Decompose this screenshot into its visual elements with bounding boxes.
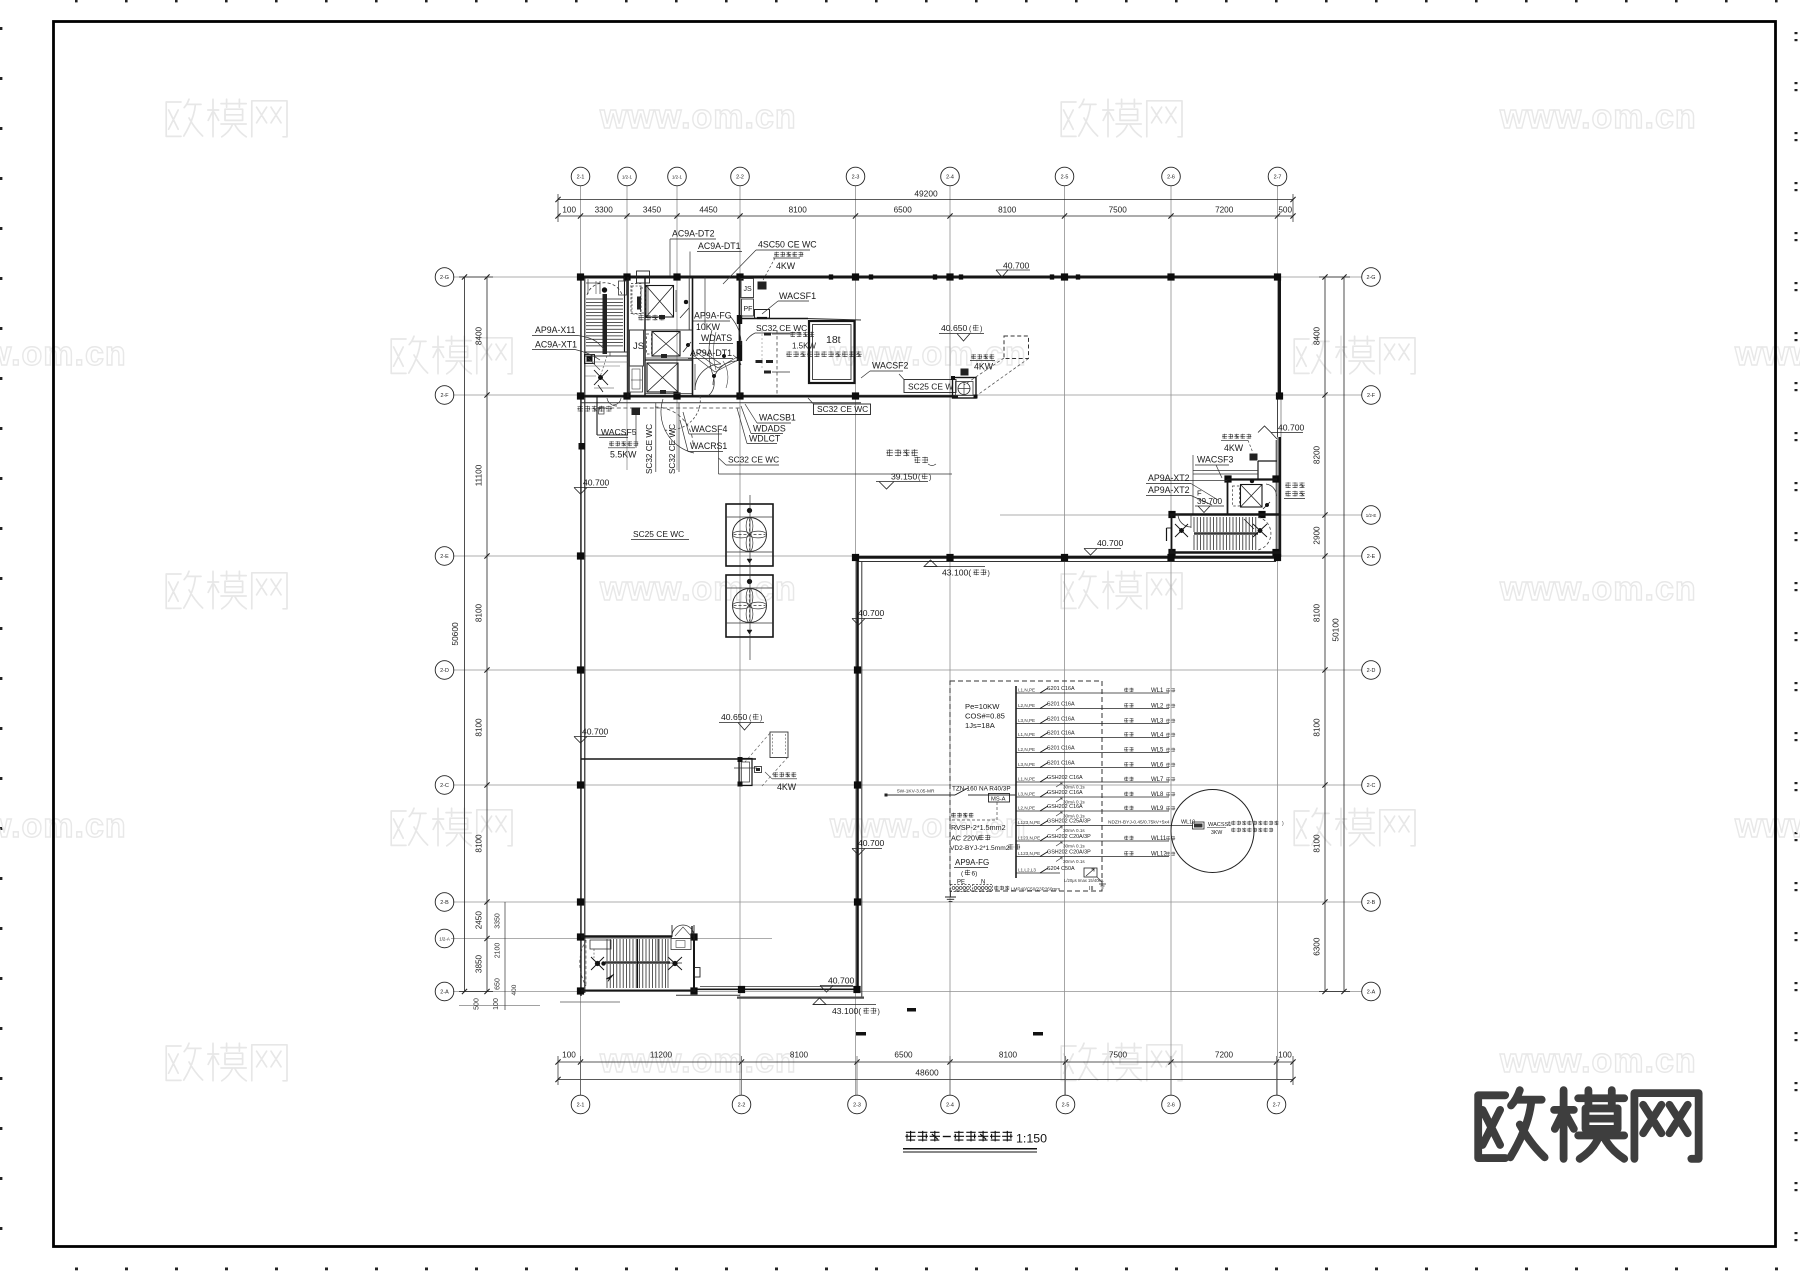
terminal note text <box>994 886 1060 892</box>
svg-text:2-4: 2-4 <box>946 174 954 180</box>
svg-text:2-A: 2-A <box>1367 989 1376 995</box>
west wall junction dot <box>579 443 586 450</box>
svg-text:1Js=18A: 1Js=18A <box>965 721 996 730</box>
SW stair entry door arc <box>580 940 586 986</box>
svg-text:WACRS1: WACRS1 <box>690 441 727 451</box>
svg-text:6): 6) <box>972 871 978 878</box>
svg-text:2-E: 2-E <box>440 554 449 560</box>
svg-text:4KW: 4KW <box>776 261 796 271</box>
svg-text:AC9A-XT1: AC9A-XT1 <box>535 340 577 350</box>
MS-A metering box <box>951 794 1010 821</box>
stair block extra detail lines <box>585 279 628 388</box>
horizontal grid lines <box>451 277 1362 992</box>
NE stair bottom wall <box>1170 551 1281 553</box>
elevator counterweight 1 <box>637 297 641 310</box>
elevation 40.650 wing <box>719 712 764 730</box>
SC25 CE WC label near fans <box>631 529 689 540</box>
west perimeter wall <box>581 276 585 996</box>
SW stair small box on east wall <box>695 968 701 978</box>
svg-text:SC32 CE WC: SC32 CE WC <box>668 424 677 474</box>
svg-text:11100: 11100 <box>475 464 484 486</box>
NE fixtures in machine room <box>1250 479 1270 509</box>
svg-text:www.om.cn: www.om.cn <box>1499 570 1697 608</box>
svg-text:WACSF4: WACSF4 <box>691 424 727 434</box>
svg-text:): ) <box>980 326 982 333</box>
smoke fan label <box>961 354 996 375</box>
watermark tiles <box>0 98 1800 1081</box>
svg-text:L123,N,PE: L123,N,PE <box>1018 836 1040 841</box>
elevation 40.700 wing west <box>574 727 609 744</box>
svg-text:4KW: 4KW <box>1224 443 1244 453</box>
label WACRS1 <box>680 420 727 452</box>
vertical grid lines <box>581 186 1278 1095</box>
fan duct axis line <box>749 495 751 660</box>
svg-text:3300: 3300 <box>595 206 614 215</box>
svg-text:3350: 3350 <box>495 913 502 929</box>
bottom dimension lines <box>555 1056 1295 1095</box>
svg-text:8100: 8100 <box>999 1051 1018 1060</box>
svg-text:7200: 7200 <box>1215 206 1234 215</box>
stairwell landing fixture box <box>585 355 595 364</box>
svg-text:LMP40/C50/23P?60mm: LMP40/C50/23P?60mm <box>1011 887 1060 892</box>
stairwell NW treads <box>586 299 623 346</box>
feeder circuit WL4 <box>1016 731 1175 739</box>
svg-text:TZN-160 NA R40/3P: TZN-160 NA R40/3P <box>952 786 1011 793</box>
svg-text:L/20μs Imax 15/40kA: L/20μs Imax 15/40kA <box>1064 878 1104 883</box>
feeder circuit WL3 <box>1016 717 1175 725</box>
svg-text:L1,N,PE: L1,N,PE <box>1018 777 1035 782</box>
svg-text:40.700: 40.700 <box>858 838 885 848</box>
east wall of west wing <box>858 557 862 997</box>
svg-text:L1,N,PE: L1,N,PE <box>1018 688 1035 693</box>
svg-text:SC32 CE WC: SC32 CE WC <box>645 424 654 474</box>
svg-text:500: 500 <box>474 998 481 1010</box>
WACSF1 device box <box>755 310 770 319</box>
svg-text:2-A: 2-A <box>440 989 449 995</box>
elevation 40.700 at east wall lower <box>852 838 885 855</box>
svg-text:SC32 CE WC: SC32 CE WC <box>728 455 779 465</box>
svg-text:L3,N,PE: L3,N,PE <box>1018 762 1035 767</box>
elevation 43.100 south structural <box>813 998 880 1016</box>
svg-text:WL8: WL8 <box>1151 792 1164 798</box>
right dimension lines <box>1319 274 1350 994</box>
svg-text:WL9: WL9 <box>1151 806 1164 812</box>
feeder circuit WL12 <box>1016 850 1175 865</box>
svg-text:49200: 49200 <box>914 189 938 199</box>
dashed pipe line in tank room <box>776 330 778 395</box>
om.cn site logo <box>1478 1090 1698 1159</box>
N terminal strip <box>973 885 993 892</box>
svg-text:AC 220V: AC 220V <box>951 834 980 843</box>
svg-text:www.om.cn: www.om.cn <box>1734 807 1800 845</box>
svg-text:S201 C16A: S201 C16A <box>1047 761 1075 767</box>
svg-text:): ) <box>929 475 931 482</box>
svg-text:GSH202 C20A/3P: GSH202 C20A/3P <box>1047 850 1091 856</box>
svg-text:2-7: 2-7 <box>1273 1102 1281 1108</box>
label SC32 CE WC under corridor <box>719 455 780 466</box>
svg-text:www.om.cn: www.om.cn <box>1499 1042 1697 1080</box>
south parapet line <box>560 995 864 1002</box>
elevation 40.700 south <box>820 976 855 993</box>
svg-text:2-6: 2-6 <box>1167 1102 1175 1108</box>
stray small marks southeast <box>856 1008 1043 1036</box>
svg-text:40.700: 40.700 <box>828 976 855 986</box>
label WDLCT <box>737 408 781 444</box>
vent leader dashed lines <box>745 733 788 786</box>
svg-text:40.700: 40.700 <box>1278 423 1305 433</box>
svg-text:): ) <box>878 1009 880 1016</box>
feeder circuit WL2 <box>1016 702 1175 710</box>
svg-text:2-G: 2-G <box>1367 275 1376 281</box>
elevation 40.700 above 2-E wall <box>1084 538 1124 555</box>
svg-text:100: 100 <box>1278 1051 1292 1060</box>
PE terminal strip <box>951 885 971 892</box>
svg-text:8400: 8400 <box>1313 326 1322 345</box>
svg-text:AP9A-DT1: AP9A-DT1 <box>690 348 732 358</box>
svg-text:2-C: 2-C <box>440 783 449 789</box>
leader from vent to fan <box>964 358 1029 396</box>
svg-text:RVSP-2*1.5mm2: RVSP-2*1.5mm2 <box>951 823 1006 832</box>
feeder circuit WL11 <box>1016 834 1175 849</box>
elevation 40.700 at east wall mid <box>852 608 885 625</box>
svg-text:2-6: 2-6 <box>1167 174 1175 180</box>
svg-text:1.5KW: 1.5KW <box>792 342 816 351</box>
incoming supply line <box>885 786 1017 797</box>
svg-text:40.700: 40.700 <box>1003 261 1030 271</box>
svg-text:): ) <box>760 715 762 722</box>
svg-text:8100: 8100 <box>475 834 484 853</box>
label WACSF4 <box>683 412 727 434</box>
svg-text:2-1: 2-1 <box>577 174 585 180</box>
svg-text:2100: 2100 <box>495 943 502 959</box>
svg-text:8400: 8400 <box>475 326 484 345</box>
feeder circuit WL13 spare <box>1016 866 1075 873</box>
svg-text:2-B: 2-B <box>440 900 449 906</box>
svg-text:50100: 50100 <box>1331 618 1341 642</box>
svg-text:AP9A-FG: AP9A-FG <box>955 858 989 867</box>
svg-text:WACSF5: WACSF5 <box>601 427 637 437</box>
svg-text:WL6: WL6 <box>1151 763 1164 769</box>
right dimension texts <box>1313 326 1341 955</box>
wall at 2-2 axis in block <box>737 277 742 397</box>
svg-text:WL10: WL10 <box>1181 820 1195 826</box>
SW stair block walls <box>581 926 696 992</box>
svg-text:WL2: WL2 <box>1151 704 1164 710</box>
stairwell NW door niche <box>619 281 627 295</box>
NE AP9A-XT2 labels <box>1146 473 1218 505</box>
svg-text:GSH202 C20A/3P: GSH202 C20A/3P <box>1047 834 1091 840</box>
feeder circuit WL7 <box>1016 775 1175 790</box>
machine room label <box>638 315 665 321</box>
svg-text:AC9A-DT1: AC9A-DT1 <box>698 241 741 251</box>
east parapet wall lower <box>1276 437 1280 557</box>
svg-text:NDZH-BYJ-0.45/0.75kV+5x4: NDZH-BYJ-0.45/0.75kV+5x4 <box>1108 820 1170 826</box>
label WDADS <box>741 406 786 434</box>
south wall of west wing <box>694 987 858 990</box>
svg-text:8100: 8100 <box>475 718 484 737</box>
svg-text:8100: 8100 <box>1313 718 1322 737</box>
svg-text:2-E: 2-E <box>1367 554 1376 560</box>
svg-text:30mA 0.1s: 30mA 0.1s <box>1063 785 1085 790</box>
title underline double <box>903 1149 1037 1152</box>
svg-text:www.om.cn: www.om.cn <box>1499 98 1697 136</box>
svg-text:2-5: 2-5 <box>1062 1102 1070 1108</box>
svg-text:GSH202 C25A/3P: GSH202 C25A/3P <box>1047 819 1091 825</box>
svg-text:S204 C50A: S204 C50A <box>1047 866 1075 872</box>
svg-text:WDLCT: WDLCT <box>749 434 781 444</box>
svg-text:3KW: 3KW <box>1211 830 1222 836</box>
svg-text:www.om.cn: www.om.cn <box>1734 335 1800 373</box>
svg-text:GSH202 C16A: GSH202 C16A <box>1047 790 1083 796</box>
svg-text:S201 C16A: S201 C16A <box>1047 731 1075 737</box>
top axis bubbles <box>571 167 1287 186</box>
stairwell NW arc <box>587 283 622 295</box>
label WACSB1 <box>745 404 796 423</box>
left dimension texts <box>450 326 518 1009</box>
svg-text:8200: 8200 <box>1313 445 1322 464</box>
elevation 40.650 on roof <box>939 323 984 341</box>
labels AP9A-X11 AC9A-XT1 <box>532 325 604 360</box>
svg-text:AC9A-DT2: AC9A-DT2 <box>672 229 715 239</box>
svg-text:S201 C16A: S201 C16A <box>1047 746 1075 752</box>
elevation 43.100 center structural <box>924 560 990 578</box>
NE elevation 40.700 top <box>1258 423 1305 440</box>
svg-text:www.om.cn: www.om.cn <box>599 1042 797 1080</box>
wing interior wall stub at 2-C <box>581 758 756 760</box>
svg-text:GSH202 C16A: GSH202 C16A <box>1047 804 1083 810</box>
svg-text:L123,N,PE: L123,N,PE <box>1018 851 1040 856</box>
svg-text:WACSF1: WACSF1 <box>779 291 816 301</box>
svg-text:2-D: 2-D <box>440 668 449 674</box>
feeder circuit WL5 <box>1016 746 1175 754</box>
svg-text:WDADS: WDADS <box>753 424 786 434</box>
svg-text:39.150: 39.150 <box>891 472 918 482</box>
NE stair treads <box>1194 517 1256 550</box>
svg-text:1/2-E: 1/2-E <box>1366 513 1377 518</box>
small box on north wall <box>637 271 650 283</box>
NE stair fixtures <box>1175 519 1267 537</box>
svg-text:4KW: 4KW <box>777 782 797 792</box>
svg-text:100: 100 <box>562 206 576 215</box>
svg-text:39.700: 39.700 <box>1197 497 1222 506</box>
svg-text:2-1: 2-1 <box>577 1102 585 1108</box>
label 4SC50 CE WC <box>723 240 817 285</box>
svg-text:18t: 18t <box>826 334 841 346</box>
motor feeder cable text <box>1108 820 1195 826</box>
svg-text:40.700: 40.700 <box>858 608 885 618</box>
svg-text:JS: JS <box>633 341 644 352</box>
panel name AP9A-FG <box>954 858 989 878</box>
svg-text:40.700: 40.700 <box>583 478 610 488</box>
svg-text:www.om.cn: www.om.cn <box>599 98 797 136</box>
stairwell NW stringer <box>603 294 608 354</box>
svg-text:10KW: 10KW <box>696 322 721 332</box>
svg-text:30mA 0.1s: 30mA 0.1s <box>1063 828 1085 833</box>
svg-text:WACSB1: WACSB1 <box>759 413 796 423</box>
svg-text:2-B: 2-B <box>1367 900 1376 906</box>
fire water tank 18t <box>809 321 855 383</box>
svg-text:2-4: 2-4 <box>946 1102 954 1108</box>
SW stair top-left niche <box>590 940 611 958</box>
svg-text:2-2: 2-2 <box>738 1102 746 1108</box>
SC32 CE WC boxed label right <box>808 398 871 415</box>
svg-text:8100: 8100 <box>1313 834 1322 853</box>
axial fan unit on 2-F <box>951 376 978 399</box>
svg-text:COS#=0.85: COS#=0.85 <box>965 712 1005 721</box>
drawing title glyphs <box>905 1131 1012 1142</box>
svg-text:2-C: 2-C <box>1367 783 1376 789</box>
svg-text:WL4: WL4 <box>1151 733 1164 739</box>
NE stair left wall <box>1167 514 1172 553</box>
WACSF1 label <box>762 291 816 314</box>
SW stair door swings top <box>672 925 694 937</box>
panel vertical busbar <box>1015 686 1017 878</box>
svg-text:8100: 8100 <box>475 603 484 622</box>
2-E south wall of north wing <box>853 557 1281 561</box>
svg-text:MS-A: MS-A <box>991 797 1006 803</box>
svg-text:43.100(: 43.100( <box>942 568 971 578</box>
svg-text:WL3: WL3 <box>1151 719 1164 725</box>
svg-text:8100: 8100 <box>789 206 808 215</box>
left axis bubbles <box>435 268 454 1001</box>
stairwell NW top landing lines <box>586 282 600 284</box>
tank room texts <box>790 332 814 337</box>
svg-text:www.om.cn: www.om.cn <box>0 335 127 373</box>
cooling fan unit 2 <box>726 575 773 637</box>
svg-text:6500: 6500 <box>894 206 913 215</box>
elevator lobby dashed equipment left <box>630 284 643 393</box>
east perimeter wall upper <box>1278 277 1281 396</box>
svg-text:2-G: 2-G <box>440 275 449 281</box>
labels above north wall AC9A-DT2 <box>670 229 716 277</box>
svg-text:PF: PF <box>744 306 753 313</box>
svg-text:50600: 50600 <box>450 622 460 646</box>
north perimeter wall <box>578 276 1281 279</box>
elevator area extra rails <box>645 285 692 394</box>
smoke vent dashed square <box>1004 336 1029 359</box>
svg-text:7500: 7500 <box>1109 206 1128 215</box>
JS shaft left <box>630 277 646 397</box>
structural columns (filled squares) <box>577 273 1283 994</box>
surge protection device <box>1064 868 1106 892</box>
svg-text:S201 C16A: S201 C16A <box>1047 686 1075 692</box>
svg-text:1/2-1: 1/2-1 <box>622 174 633 179</box>
small vent symbols in tank room <box>756 333 791 374</box>
left dimension lines <box>459 274 540 1010</box>
elevation 40.700 above north wall <box>996 261 1030 278</box>
motor starter box <box>1193 822 1205 829</box>
NE stair door swing <box>1178 514 1191 528</box>
JS PF small rooms <box>741 279 808 319</box>
svg-text:2-7: 2-7 <box>1274 174 1282 180</box>
svg-text:6300: 6300 <box>1313 937 1322 956</box>
svg-text:SC25 CE W: SC25 CE W <box>908 382 953 392</box>
svg-text:L1,N,PE: L1,N,PE <box>1018 732 1035 737</box>
svg-text:30mA 0.1s: 30mA 0.1s <box>1063 844 1085 849</box>
svg-text:2900: 2900 <box>1313 526 1322 545</box>
svg-text:8100: 8100 <box>1313 603 1322 622</box>
SW stair fixtures <box>591 957 682 970</box>
cooling fan unit 1 <box>726 504 773 566</box>
svg-text:SC32 CE WC: SC32 CE WC <box>756 323 807 333</box>
top segment dimension texts <box>562 206 1292 215</box>
SC25 CE W boxed label <box>899 374 956 393</box>
SC32 CE WC label in tank room <box>746 323 807 341</box>
svg-text:JS: JS <box>744 286 753 293</box>
2-F interior wall <box>578 396 958 403</box>
svg-text:3450: 3450 <box>643 206 662 215</box>
feeder circuit WL10 <box>1016 819 1193 834</box>
machine room east wall <box>689 277 692 397</box>
svg-text:S201 C16A: S201 C16A <box>1047 702 1075 708</box>
vertical riser label SC32 CE WC no1 <box>645 403 656 474</box>
svg-text:2-5: 2-5 <box>1061 174 1069 180</box>
svg-text:L123,N,PE: L123,N,PE <box>1018 820 1040 825</box>
pipe shaft room at west wall <box>597 397 628 435</box>
svg-text:WL5: WL5 <box>1151 748 1164 754</box>
door swing arc corridor <box>661 399 694 453</box>
svg-text:2-D: 2-D <box>1367 668 1376 674</box>
svg-text:650: 650 <box>495 978 502 990</box>
svg-text:WACSF3: WACSF3 <box>1197 455 1233 465</box>
svg-text:40.650: 40.650 <box>721 712 748 722</box>
svg-text:4KW: 4KW <box>974 362 994 372</box>
svg-text:WL12: WL12 <box>1151 852 1167 858</box>
svg-text:2-2: 2-2 <box>736 174 744 180</box>
NE machine room walls <box>1228 461 1278 515</box>
svg-text:L2,N,PE: L2,N,PE <box>1018 747 1035 752</box>
elevator shaft 1 <box>641 286 674 318</box>
stair smoke fan device <box>734 757 757 787</box>
upper roof text shang ren wu mian <box>886 449 936 465</box>
pressurize fan label 5.5KW <box>608 408 640 460</box>
svg-text:WACSF2: WACSF2 <box>872 361 908 371</box>
electrical room door arcs <box>664 361 737 430</box>
NE elevator box <box>1233 485 1263 508</box>
panel data text Pe COS Ijs <box>965 702 1005 730</box>
svg-text:1:150: 1:150 <box>1016 1132 1047 1146</box>
svg-text:2450: 2450 <box>475 911 484 930</box>
dashed service line below wall <box>597 407 741 409</box>
svg-text:SC25 CE WC: SC25 CE WC <box>633 529 684 539</box>
svg-text:SC32 CE WC: SC32 CE WC <box>817 404 868 414</box>
NE stair mid landing bar <box>1194 532 1258 534</box>
svg-text:500: 500 <box>1278 206 1292 215</box>
SW stair arrow <box>606 974 614 982</box>
svg-text:www.om.cn: www.om.cn <box>0 807 127 845</box>
elevator shaft 2 <box>647 332 681 357</box>
svg-text:AP9A-XT2: AP9A-XT2 <box>1148 485 1190 495</box>
bottom axis bubbles <box>571 1095 1286 1114</box>
svg-text:7200: 7200 <box>1215 1051 1234 1060</box>
labels above north wall AC9A-DT1 <box>690 241 742 276</box>
shaft interior dashed equipment <box>628 286 692 330</box>
svg-text:AP9A-FG: AP9A-FG <box>694 311 732 321</box>
svg-text:2-3: 2-3 <box>853 1102 861 1108</box>
svg-text:1/2-1: 1/2-1 <box>672 174 683 179</box>
svg-text:L1,L2,L3: L1,L2,L3 <box>1018 868 1036 873</box>
stairwell NW light dot <box>602 288 607 293</box>
elevation 40.700 west wing upper <box>574 478 610 495</box>
feeder circuit WL9 <box>1016 804 1175 819</box>
svg-text:48600: 48600 <box>915 1068 939 1078</box>
svg-text:2-3: 2-3 <box>852 174 860 180</box>
feeder circuit WL1 <box>1016 686 1175 694</box>
panel dashed enclosure <box>950 681 1102 891</box>
NE fire elevator room label <box>1284 482 1305 498</box>
svg-text:L2,N,PE: L2,N,PE <box>1018 806 1035 811</box>
svg-text:8100: 8100 <box>790 1051 809 1060</box>
